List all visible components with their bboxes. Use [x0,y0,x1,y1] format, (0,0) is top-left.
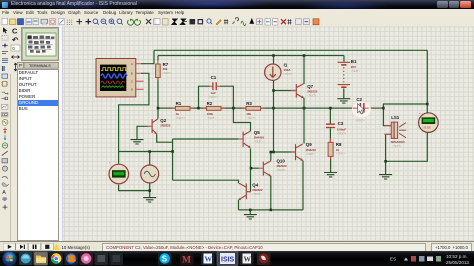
left mode toolbar [0,26,11,241]
svg-text:0.06uF: 0.06uF [337,128,346,132]
ground G6 (speaker) [379,175,392,179]
svg-text:D: D [131,88,133,92]
wire B1 bottom to ground G5 [343,88,345,98]
svg-text:B1: B1 [351,59,357,64]
transistor Q7 [291,84,304,99]
wire Q10 base stub [251,167,259,169]
toolbar [0,17,474,28]
rotate controls [10,26,21,74]
capacitor C2 (selected, with cursor) [352,97,371,122]
wire Q10 emitter drop [270,176,272,210]
junction Q10 collector tee [270,151,273,154]
svg-text:+: + [109,160,111,164]
wire sources rail [119,151,173,153]
svg-text:<TEXT>: <TEXT> [160,124,170,127]
svg-text:R8: R8 [336,142,342,147]
junction Q7 emitter / Q9 collector on rail C [303,107,306,110]
resistor R7 [156,60,173,81]
junction Q9 base tee [272,151,275,154]
wire Q2 emitter drop [157,135,173,143]
svg-text:100k: 100k [207,112,214,116]
svg-text:<TEXT>: <TEXT> [355,120,365,123]
svg-text:1k: 1k [176,112,180,116]
svg-text:20V: 20V [351,65,356,69]
svg-text:2N2222: 2N2222 [306,148,317,152]
menu bar [0,9,474,18]
svg-text:<TEXT>: <TEXT> [207,117,217,120]
svg-text:<TEXT>: <TEXT> [306,153,316,156]
wire C1 left leg [199,86,210,108]
wire C1 right leg [220,86,234,108]
wire Q7 collector riser [303,56,305,85]
wire Q4 emitter drop [238,200,240,210]
junction node riser on rail C [272,107,275,110]
svg-text:<TEXT>: <TEXT> [209,96,219,99]
svg-text:Q7: Q7 [307,84,313,89]
svg-text:2N2222: 2N2222 [277,164,288,168]
svg-text:<TEXT>: <TEXT> [351,70,361,73]
svg-text:Q5: Q5 [254,130,260,135]
wire Q5 emitter to Q4 base [247,148,251,191]
junction Q10 emitter on bottom rail [270,209,273,212]
wire C3 tap [329,108,331,124]
svg-text:S: S [162,254,168,263]
svg-text:100A: 100A [284,68,292,72]
svg-text:1uF: 1uF [211,91,216,95]
wire N1 down to speaker [383,108,391,126]
svg-text:R2: R2 [207,101,213,106]
svg-text:25/05/2013: 25/05/2013 [446,260,469,265]
svg-text:<TEXT>: <TEXT> [337,133,347,136]
svg-text:<TEXT>: <TEXT> [392,145,402,148]
wire Q7 base [274,90,296,92]
svg-text:<TEXT>: <TEXT> [277,169,287,172]
svg-text:Q2: Q2 [160,118,166,123]
wire N1 jog up to meter column [383,104,427,108]
junction C1 left leg on rail C [197,107,200,110]
wire B1 top tap [343,56,345,62]
junction Q7 base tee [272,89,275,92]
wire rail A left drop to scope A [141,50,154,63]
wire node riser x273 [273,108,275,152]
wire Q2 collector riser [157,108,159,118]
svg-text:I1: I1 [284,63,288,68]
svg-text:<TEXT>: <TEXT> [252,193,262,196]
svg-text:<TEXT>: <TEXT> [336,153,346,156]
svg-text:ISIS: ISIS [221,257,235,264]
resistor R8 [328,139,346,159]
svg-text:2N2222: 2N2222 [252,188,263,192]
AC source (signal generator) [141,165,159,183]
svg-text:A: A [2,190,6,196]
wire ground stub G2 [149,191,151,198]
wire R8 bottom to ground G4 [330,156,332,172]
junction speaker ground node [384,160,387,163]
oscilloscope [96,59,144,97]
wire I1 bottom to rail C [273,81,275,109]
svg-text:TERMINALS: TERMINALS [29,64,51,68]
svg-text:ES: ES [390,257,396,262]
junction C3 tap on rail C [329,107,332,110]
svg-text:C3: C3 [338,121,344,126]
capacitor C3 [326,121,347,136]
wire bottom rail [239,209,304,211]
meter instrument (right) [419,111,439,133]
svg-text:C: C [131,79,133,83]
wire C3 to R8 [329,128,331,142]
ground G3 (bottom rail) [244,215,257,219]
wire voltmeter top [118,152,120,164]
svg-text:Q4: Q4 [252,183,258,188]
svg-text:W: W [244,255,252,264]
svg-text:R3: R3 [246,101,252,106]
wire voltmeter bottom return [119,185,150,191]
wire rail A right drop to meter [426,50,428,112]
svg-text:2N2222: 2N2222 [307,90,318,94]
transistor Q5 [238,131,250,148]
svg-text:C: C [12,27,18,36]
wire Q5 collector jog [233,108,250,131]
svg-text:A: A [131,62,133,66]
junction Q7 riser on rail B [303,54,306,57]
wire I1 top tap [273,56,275,65]
window title bar [0,0,474,9]
junction AC source bottom return [148,189,151,192]
wire Q7 emitter drop [303,98,305,144]
svg-text:LS1: LS1 [391,115,400,120]
transistor Q10 (mirrored) [259,161,271,177]
junction meter column jog [426,103,429,106]
wire rail C main [158,107,353,109]
svg-text:+: + [419,111,421,115]
voltmeter instrument [109,160,129,183]
battery B1 [338,62,350,87]
wire R7 bottom drop [157,78,159,109]
ground G5 (B1) [337,99,350,103]
wire AC source top [149,152,151,165]
wire Q4 collector link [173,180,239,183]
ground G1 (Q2 base) [131,140,144,144]
svg-text:B: B [131,72,133,76]
svg-text:Q10: Q10 [277,159,286,164]
svg-text:2N4403: 2N4403 [254,135,265,139]
wire scope B loop [119,73,149,151]
wire Q5 base riser [173,139,239,180]
ground G2 (sources) [143,198,156,202]
junction Q10 base tee [250,167,253,170]
wire rail B drop to R7 [157,56,159,61]
wire AC source bottom [149,184,151,191]
wire ground stub G3 [249,210,251,215]
ground G4 (R8) [324,173,337,177]
transistor Q9 [291,144,303,161]
windows taskbar [0,251,474,266]
junction C1 right leg / Q5 collector on rail C [232,107,235,110]
svg-text:30k: 30k [163,67,168,71]
svg-text:10:52 p.m.: 10:52 p.m. [446,254,468,259]
junction ground stub on bottom rail [249,209,252,212]
svg-text:<TEXT>: <TEXT> [307,95,317,98]
junction node N1 on rail C [382,107,385,110]
wire Q2 base to ground [137,126,148,139]
capacitor C1 [209,75,220,99]
schematic canvas [59,26,474,241]
junction Q2 emitter riser on sources rail [171,150,174,153]
svg-text:↶: ↶ [11,36,19,45]
resistor R3 [242,101,265,120]
wire Q9 emitter drop [302,161,304,210]
wire rail A top [154,49,427,51]
svg-text:C2: C2 [356,97,362,102]
wire rail B [158,55,344,57]
speaker LS1 [384,115,406,148]
svg-text:10: 10 [336,148,340,152]
wire Q10 collector riser [270,152,272,161]
svg-text:P: P [19,63,22,68]
svg-text:M: M [182,255,191,265]
svg-text:00.000: 00.000 [423,127,431,130]
transistor Q4 (mirrored) [238,183,250,200]
wire speaker bottom to ground G6 [386,134,391,174]
wire Q9 base [271,151,295,153]
junction R7 column on rail C [157,107,160,110]
svg-text:<TEXT>: <TEXT> [176,117,186,120]
svg-text:C1: C1 [211,75,217,80]
svg-text:SPEAKER: SPEAKER [391,140,406,144]
current source I1 [265,63,294,81]
wire speaker node to meter bottom [386,133,428,162]
svg-text:R1: R1 [176,101,182,106]
svg-text:Q9: Q9 [306,142,312,147]
junction I1 tap on rail B [272,54,275,57]
status bar [0,241,474,252]
transistor Q2 [148,119,159,135]
resistor R2 [203,101,226,120]
svg-text:<TEXT>: <TEXT> [254,140,264,143]
wire C2 right to node N1 [369,107,384,109]
junction AC source top on sources rail [148,150,151,153]
svg-text:<TEXT>: <TEXT> [246,117,256,120]
resistor R1 [172,101,195,120]
object selector panel [21,26,59,241]
svg-text:<TEXT>: <TEXT> [284,73,294,76]
svg-text:10k: 10k [246,112,251,116]
svg-text:<TEXT>: <TEXT> [163,72,173,75]
svg-text:W: W [205,255,213,264]
